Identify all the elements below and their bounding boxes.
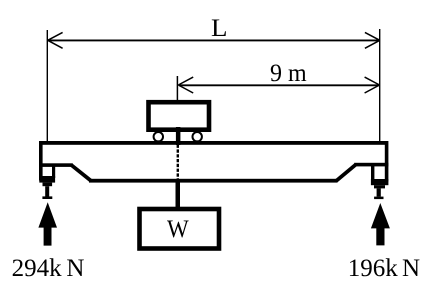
hanger link trolley to beam bbox=[176, 127, 181, 145]
dimension line L bbox=[49, 39, 380, 41]
beam right taper diagonal bbox=[336, 165, 355, 181]
dimension line 9m bbox=[179, 84, 379, 86]
label 294k N bbox=[12, 255, 85, 283]
left bogie side plate bbox=[52, 165, 55, 178]
left wheel block narrow bbox=[43, 183, 53, 187]
left support stem bbox=[45, 186, 49, 196]
beam left edge bbox=[39, 141, 43, 181]
arrowhead L right bbox=[365, 32, 380, 48]
beam left taper diagonal bbox=[72, 165, 91, 180]
label L bbox=[211, 15, 228, 43]
right bogie side plate bbox=[371, 165, 374, 180]
reaction arrow left bbox=[38, 202, 57, 245]
arrowhead 9m right bbox=[365, 77, 380, 93]
reaction arrow right bbox=[371, 203, 390, 245]
dotted load line through beam bbox=[177, 145, 179, 179]
label 9 m bbox=[270, 60, 307, 88]
label W bbox=[167, 216, 189, 244]
left support base bar bbox=[42, 196, 52, 199]
trolley wheel right bbox=[193, 132, 202, 141]
beam right flange line bbox=[354, 163, 388, 167]
right wheel block narrow bbox=[374, 185, 385, 188]
right support base bar bbox=[374, 197, 383, 200]
extension line right bbox=[379, 29, 381, 142]
trolley centre extension line bbox=[176, 76, 178, 101]
extension line left bbox=[46, 30, 48, 142]
right support stem bbox=[377, 188, 381, 196]
arrowhead 9m left bbox=[178, 77, 193, 93]
load box W bbox=[140, 209, 220, 249]
trolley box bbox=[149, 102, 210, 130]
arrowhead L left bbox=[48, 32, 63, 48]
beam bottom edge bbox=[89, 179, 338, 183]
label 196k N bbox=[348, 255, 420, 283]
right wheel block wide bbox=[371, 179, 389, 185]
beam top edge bbox=[39, 141, 388, 145]
beam right edge bbox=[385, 141, 389, 182]
left wheel block wide bbox=[39, 176, 55, 183]
hanger link beam to load bbox=[176, 179, 181, 208]
trolley wheel left bbox=[154, 132, 163, 141]
beam left flange line bbox=[39, 163, 73, 167]
